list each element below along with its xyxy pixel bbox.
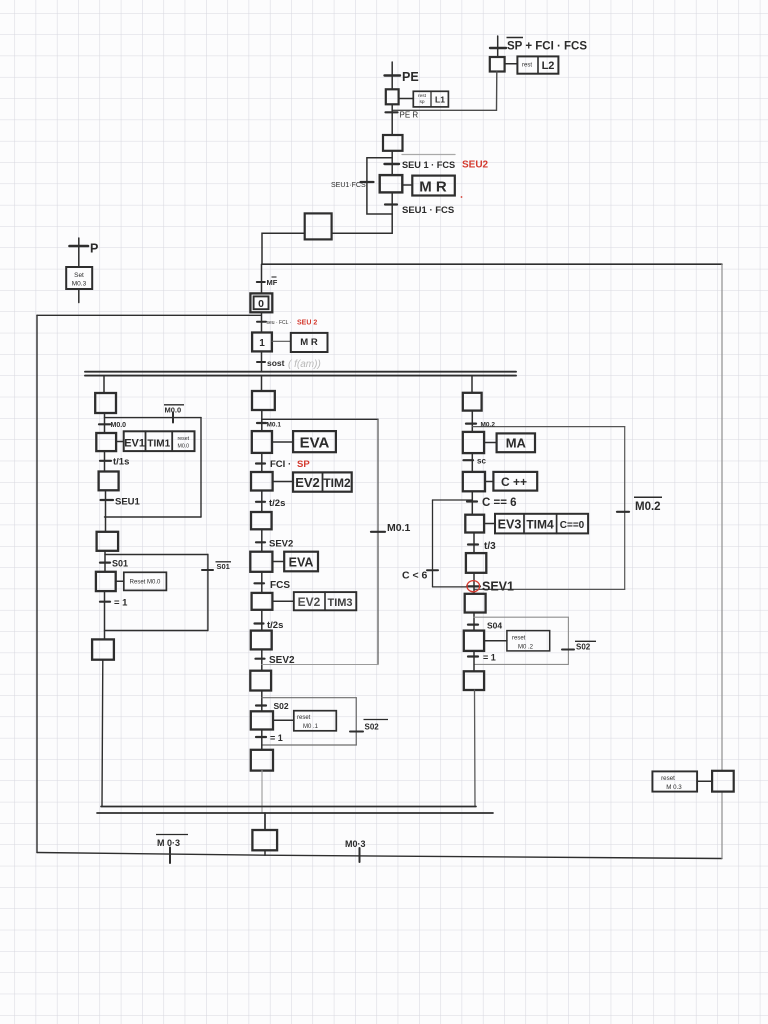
svg-text:sp: sp bbox=[419, 100, 424, 105]
wire step37 to action bbox=[484, 640, 507, 642]
svg-text:EV2: EV2 bbox=[295, 475, 320, 490]
transition tick =1 bbox=[100, 601, 110, 603]
wire into step 0 bbox=[261, 264, 263, 293]
step 16 bbox=[92, 639, 114, 659]
svg-text:( f(am)): ( f(am)) bbox=[288, 359, 321, 370]
wire below step14 bbox=[104, 551, 106, 572]
wire below MR step bbox=[391, 192, 393, 233]
wire to branch2 top bbox=[261, 376, 263, 391]
transition tick SC bbox=[464, 459, 474, 461]
step 26 (EV2 TIM3) bbox=[252, 593, 273, 610]
wire step33 to action bbox=[485, 481, 493, 483]
wire step29 down bbox=[261, 730, 263, 750]
step 27 bbox=[251, 631, 272, 650]
svg-text:M0.3: M0.3 bbox=[72, 281, 87, 288]
svg-text:M0.2: M0.2 bbox=[635, 501, 661, 513]
svg-text:SP: SP bbox=[297, 459, 310, 470]
step 29 (reset M0.1) bbox=[251, 711, 273, 729]
skip right vertical S01 bbox=[207, 555, 209, 631]
wire step23 down bbox=[261, 491, 263, 513]
OR split S01 skip bbox=[105, 554, 208, 556]
OR split to left alternative bbox=[367, 157, 392, 159]
svg-text:SEU1: SEU1 bbox=[115, 497, 141, 508]
transition tick nM0.0 (on skip) bbox=[172, 413, 174, 423]
wire step24 down bbox=[261, 529, 263, 551]
transition tick nM0.3 bbox=[169, 848, 171, 864]
S02 skip vertical bbox=[355, 698, 357, 745]
skip merge rail bbox=[262, 744, 357, 746]
svg-text:M 0·3: M 0·3 bbox=[157, 838, 180, 848]
svg-text:= 1: = 1 bbox=[483, 653, 496, 663]
M0.2 skip vertical bbox=[624, 427, 626, 590]
svg-text:reset: reset bbox=[297, 715, 311, 721]
svg-text:TIM2: TIM2 bbox=[323, 476, 351, 490]
C<6 loop vertical bbox=[432, 500, 434, 587]
C<6 loop top rail bbox=[433, 499, 473, 501]
wire below step36 bbox=[473, 613, 475, 631]
action box rest/L2 bbox=[517, 56, 558, 73]
wire action to step R bbox=[697, 780, 712, 782]
wire step22 down bbox=[261, 453, 263, 472]
wire below step P2 bbox=[391, 151, 393, 175]
big step S10 bbox=[305, 213, 332, 239]
svg-text:MF: MF bbox=[267, 278, 278, 287]
wire step25 down bbox=[261, 572, 263, 593]
transition tick S02 bbox=[256, 704, 266, 706]
svg-text:S02: S02 bbox=[576, 643, 591, 652]
svg-text:S04: S04 bbox=[487, 621, 502, 631]
svg-text:1: 1 bbox=[259, 338, 265, 349]
svg-text:0: 0 bbox=[258, 298, 264, 310]
svg-text:t/2s: t/2s bbox=[269, 498, 285, 509]
wire below step31 bbox=[471, 411, 473, 432]
svg-text:M0.0: M0.0 bbox=[178, 444, 190, 450]
svg-text:SEU 1 · FCS: SEU 1 · FCS bbox=[402, 160, 455, 170]
step 35 bbox=[466, 553, 486, 573]
transition tick FCS bbox=[255, 582, 265, 584]
svg-text:SEV2: SEV2 bbox=[269, 655, 295, 666]
wire branch2 down to convergence bbox=[261, 771, 263, 813]
svg-text:M0.1: M0.1 bbox=[267, 422, 282, 429]
step 24 bbox=[251, 512, 272, 529]
initial step 0 (double box) bbox=[250, 293, 272, 312]
transition tick SEU1.FCS (lower) bbox=[385, 203, 397, 205]
wire step15 to action bbox=[116, 580, 124, 582]
svg-text:t/1s: t/1s bbox=[113, 457, 129, 468]
svg-text:reset: reset bbox=[178, 436, 190, 442]
right return vertical (lower) bbox=[721, 792, 723, 859]
long top rail to right side bbox=[262, 263, 722, 265]
svg-text:S01: S01 bbox=[112, 559, 128, 569]
wire step26 down bbox=[261, 610, 263, 631]
svg-text:MA: MA bbox=[506, 436, 527, 451]
C<6 loop bottom rail bbox=[433, 586, 469, 588]
wire step37 down bbox=[473, 651, 475, 671]
transition tick PER bbox=[386, 111, 398, 113]
transition tick PE bbox=[385, 74, 401, 76]
svg-text:EVA: EVA bbox=[289, 556, 314, 570]
action box reset M0.2 bbox=[507, 631, 550, 651]
step S20 bbox=[490, 57, 505, 72]
svg-text:EVA: EVA bbox=[300, 435, 330, 452]
svg-text:M R: M R bbox=[300, 337, 318, 348]
svg-text:L2: L2 bbox=[542, 60, 555, 72]
svg-text:C == 6: C == 6 bbox=[482, 497, 517, 509]
red speck bbox=[461, 196, 463, 198]
M0.2 skip merge rail bbox=[474, 588, 625, 590]
svg-text:S02: S02 bbox=[274, 701, 289, 711]
svg-text:PE: PE bbox=[402, 70, 419, 84]
wire step to action L2 bbox=[505, 63, 518, 65]
svg-text:M0.0: M0.0 bbox=[165, 406, 182, 415]
step 1 bbox=[252, 333, 272, 352]
S04 skip vertical bbox=[567, 617, 569, 664]
svg-text:SEV2: SEV2 bbox=[269, 539, 293, 550]
skip merge rail (b3) bbox=[474, 663, 568, 665]
wire step13 down bbox=[105, 490, 107, 532]
step 11 bbox=[95, 393, 116, 413]
svg-text:EV3: EV3 bbox=[498, 518, 522, 532]
wire step34 to action bbox=[484, 523, 495, 525]
svg-text:SEU1·FCS: SEU1·FCS bbox=[331, 182, 366, 189]
wire step26 to action bbox=[272, 600, 293, 602]
transition tick M0.1 (loop) bbox=[371, 531, 385, 533]
wire P bbox=[78, 238, 80, 303]
wire PE step down bbox=[391, 104, 393, 135]
step 36 bbox=[465, 594, 486, 613]
svg-text:TIM1: TIM1 bbox=[147, 439, 170, 450]
svg-text:SEU2: SEU2 bbox=[462, 160, 489, 171]
svg-text:SEV1: SEV1 bbox=[482, 580, 514, 594]
action box EV1|TIM1|reset M0.0 bbox=[124, 431, 195, 451]
wire step1 down bbox=[261, 351, 263, 371]
skip right vertical bbox=[200, 418, 202, 517]
transition tick MF bbox=[257, 281, 265, 283]
convergence double bar bbox=[101, 806, 476, 808]
M0.1 loop vertical bbox=[377, 419, 379, 664]
transition tick SEV2 (2) bbox=[256, 658, 265, 660]
wire to bottom step bbox=[264, 813, 266, 830]
step 23 (EV2 TIM2) bbox=[251, 472, 273, 491]
transition tick FCI.SP bbox=[256, 462, 265, 464]
left return vertical bbox=[36, 315, 38, 852]
transition tick M0.2 bbox=[466, 423, 476, 425]
bottom return rail bbox=[37, 853, 722, 859]
transition tick =1 (b3) bbox=[468, 655, 478, 657]
svg-text:S01: S01 bbox=[217, 562, 230, 571]
transition tick SEU1.FCS (main) bbox=[385, 163, 400, 165]
svg-text:M0 .2: M0 .2 bbox=[518, 645, 534, 651]
svg-text:M0.1: M0.1 bbox=[387, 522, 411, 534]
wire step32 down bbox=[471, 453, 473, 472]
OR split M0.0 skip bbox=[105, 417, 202, 419]
M0.1 loop merge rail bbox=[262, 664, 378, 666]
wire step to action L1 bbox=[399, 98, 414, 100]
wire step22 to action bbox=[272, 441, 293, 443]
transition tick =1 (b2) bbox=[256, 736, 266, 738]
long wire branch1 down to convergence bbox=[101, 660, 104, 807]
transition tick sost bbox=[257, 361, 265, 363]
wire into transition SP bbox=[497, 36, 499, 57]
step 37 (reset M0.2) bbox=[464, 631, 484, 651]
step 38 bbox=[464, 671, 484, 690]
action box MR (step1) bbox=[291, 333, 328, 352]
transition tick nS01 bbox=[202, 569, 213, 571]
wire step15 down bbox=[104, 591, 106, 639]
step 22 (EVA) bbox=[252, 431, 272, 453]
svg-text:reset: reset bbox=[661, 775, 675, 782]
wire into transition PE bbox=[391, 62, 393, 89]
transition tick nS02 (b3) bbox=[562, 649, 574, 651]
step 15 (Reset M0.0) bbox=[96, 572, 116, 591]
svg-text:TIM3: TIM3 bbox=[327, 597, 352, 609]
wire step25 to action bbox=[272, 561, 284, 563]
left alternative wire with tick SEU1.FCS bbox=[367, 158, 392, 214]
step 33 (C++) bbox=[463, 472, 485, 491]
transition tick SP+FCI.FCS bbox=[490, 47, 506, 49]
svg-text:S02: S02 bbox=[365, 723, 380, 732]
transition tick C<6 bbox=[427, 569, 438, 571]
transition tick SEV1 bbox=[467, 585, 480, 587]
step P2 bbox=[383, 135, 403, 151]
svg-text:sc: sc bbox=[477, 457, 486, 466]
svg-text:FCI ·: FCI · bbox=[270, 459, 291, 470]
skip merge rail bbox=[105, 630, 208, 632]
transition tick S01 bbox=[100, 561, 110, 563]
svg-text:SP + FCI · FCS: SP + FCI · FCS bbox=[507, 41, 587, 53]
svg-text:PE R: PE R bbox=[400, 111, 419, 120]
wire to branch1 top bbox=[103, 376, 105, 393]
action box reset M0.1 bbox=[294, 711, 337, 731]
action box C++ bbox=[493, 472, 537, 491]
step 12 (EV1 TIM1) bbox=[96, 433, 116, 451]
svg-text:M 0.3: M 0.3 bbox=[666, 784, 682, 791]
svg-text:= 1: = 1 bbox=[114, 598, 128, 609]
action box MA bbox=[497, 433, 535, 452]
bottom step 40 bbox=[252, 830, 277, 850]
transition tick S04 bbox=[468, 623, 478, 625]
transition tick P bbox=[70, 245, 89, 248]
svg-text:rest: rest bbox=[522, 63, 532, 69]
svg-text:TIM4: TIM4 bbox=[526, 518, 554, 532]
action box Set M0.3 bbox=[66, 267, 92, 289]
step P3 (MR) bbox=[380, 175, 403, 192]
svg-text:sost: sost bbox=[267, 358, 285, 368]
step 28 bbox=[250, 671, 271, 691]
svg-text:t/3: t/3 bbox=[484, 541, 496, 552]
svg-text:P: P bbox=[90, 242, 98, 256]
transition tick nS02 bbox=[350, 731, 363, 733]
step R (reset M0.3) bbox=[712, 771, 734, 792]
action box rest-sp/L1 bbox=[413, 91, 448, 107]
step 21 bbox=[252, 391, 275, 410]
wire below step 11 bbox=[104, 413, 106, 433]
svg-text:Reset M0.0: Reset M0.0 bbox=[130, 580, 161, 586]
wire step34 down bbox=[473, 533, 475, 554]
step 32 (MA) bbox=[463, 432, 484, 453]
wire below step28 bbox=[261, 691, 263, 712]
svg-text:seu · FCL ·: seu · FCL · bbox=[267, 320, 292, 326]
OR split S02 skip bbox=[262, 697, 357, 699]
transition tick seu.FCL.SEU2 bbox=[257, 321, 266, 323]
wire below step 21 bbox=[261, 410, 263, 431]
overline over SEU1 FCS label bbox=[402, 154, 455, 156]
transition tick t/2s bbox=[256, 501, 265, 503]
svg-text:M0.2: M0.2 bbox=[481, 422, 496, 429]
svg-text:EV2: EV2 bbox=[298, 595, 321, 609]
wire step35 down bbox=[473, 573, 475, 594]
wire step12 down bbox=[104, 451, 106, 471]
svg-text:= 1: = 1 bbox=[270, 733, 283, 743]
wire step32 to action bbox=[484, 442, 497, 444]
skip merge rail bbox=[105, 516, 202, 518]
merge rail from left loop bbox=[37, 314, 261, 316]
action box EV3|TIM4|C==0 bbox=[495, 514, 588, 534]
svg-text:reset: reset bbox=[512, 636, 526, 642]
wire big step to main drop bbox=[262, 233, 305, 264]
transition tick t/3 bbox=[468, 543, 478, 545]
wire bottom step to bottom rail bbox=[264, 850, 266, 855]
transition tick M0.3 bbox=[359, 848, 361, 862]
svg-text:SEU1 · FCS: SEU1 · FCS bbox=[402, 205, 454, 216]
wire step1 to MR action bbox=[272, 340, 291, 342]
svg-text:M0·3: M0·3 bbox=[345, 839, 366, 849]
svg-text:t/2s: t/2s bbox=[267, 620, 283, 631]
step 34 (EV3 TIM4 C==0) bbox=[465, 515, 484, 533]
transition tick t/2s (2) bbox=[255, 622, 264, 624]
step 25 (EVA) bbox=[250, 552, 272, 572]
action box Reset M0.0 bbox=[124, 572, 167, 590]
wire branch3 down to convergence bbox=[474, 690, 477, 807]
svg-text:C==0: C==0 bbox=[560, 520, 585, 531]
wire left to big step bbox=[332, 232, 393, 234]
svg-text:C ++: C ++ bbox=[501, 475, 527, 489]
step 14 bbox=[97, 532, 119, 551]
svg-text:M R: M R bbox=[419, 179, 447, 196]
svg-text:EV1: EV1 bbox=[124, 438, 145, 450]
transition tick M0.1 (main) bbox=[257, 422, 266, 424]
wire to branch3 top bbox=[471, 376, 473, 393]
transition tick nM0.2 bbox=[617, 511, 629, 513]
red circle on SEV1 transition bbox=[467, 581, 480, 592]
action box MR bbox=[412, 176, 455, 196]
transition tick M0.0 bbox=[99, 423, 110, 425]
svg-text:M0.0: M0.0 bbox=[111, 422, 127, 429]
step 13 bbox=[99, 472, 119, 491]
transition tick C==6 bbox=[467, 500, 477, 502]
wire step27 down bbox=[261, 649, 263, 670]
wire step12 to action bbox=[116, 441, 124, 443]
svg-text:Set: Set bbox=[74, 272, 84, 279]
svg-text:SEU 2: SEU 2 bbox=[297, 320, 317, 327]
step 31 bbox=[463, 393, 482, 411]
action box EVA bbox=[293, 431, 336, 452]
wire step to MR action bbox=[402, 184, 412, 186]
svg-text:FCS: FCS bbox=[270, 580, 290, 591]
transition tick SEU1 bbox=[101, 499, 114, 501]
OR split M0.2 skip bbox=[472, 426, 624, 428]
OR split M0.1 loop bbox=[262, 418, 378, 420]
transition tick SEV2 bbox=[256, 541, 265, 543]
action box EV2|TIM2 bbox=[293, 472, 352, 491]
svg-text:C < 6: C < 6 bbox=[402, 570, 428, 582]
svg-text:L1: L1 bbox=[435, 95, 445, 105]
step 2A bbox=[251, 750, 273, 771]
wire step33 down bbox=[471, 491, 473, 514]
wire from step S20 down-left to PE chain bbox=[393, 72, 497, 111]
transition tick t/1s bbox=[100, 460, 111, 462]
step P1 bbox=[386, 89, 399, 104]
wire step23 to action bbox=[273, 481, 293, 483]
wire step0 to step1 bbox=[261, 312, 263, 332]
action box EV2|TIM3 bbox=[294, 592, 357, 610]
wire step29 to action bbox=[273, 719, 294, 721]
svg-text:rest: rest bbox=[418, 93, 427, 99]
svg-text:M0 .1: M0 .1 bbox=[303, 724, 319, 730]
action box EVA (2) bbox=[284, 552, 318, 572]
right rail vertical (upper) bbox=[721, 264, 723, 771]
OR split S04 skip bbox=[474, 616, 568, 618]
action box reset M0.3 bbox=[652, 771, 697, 791]
